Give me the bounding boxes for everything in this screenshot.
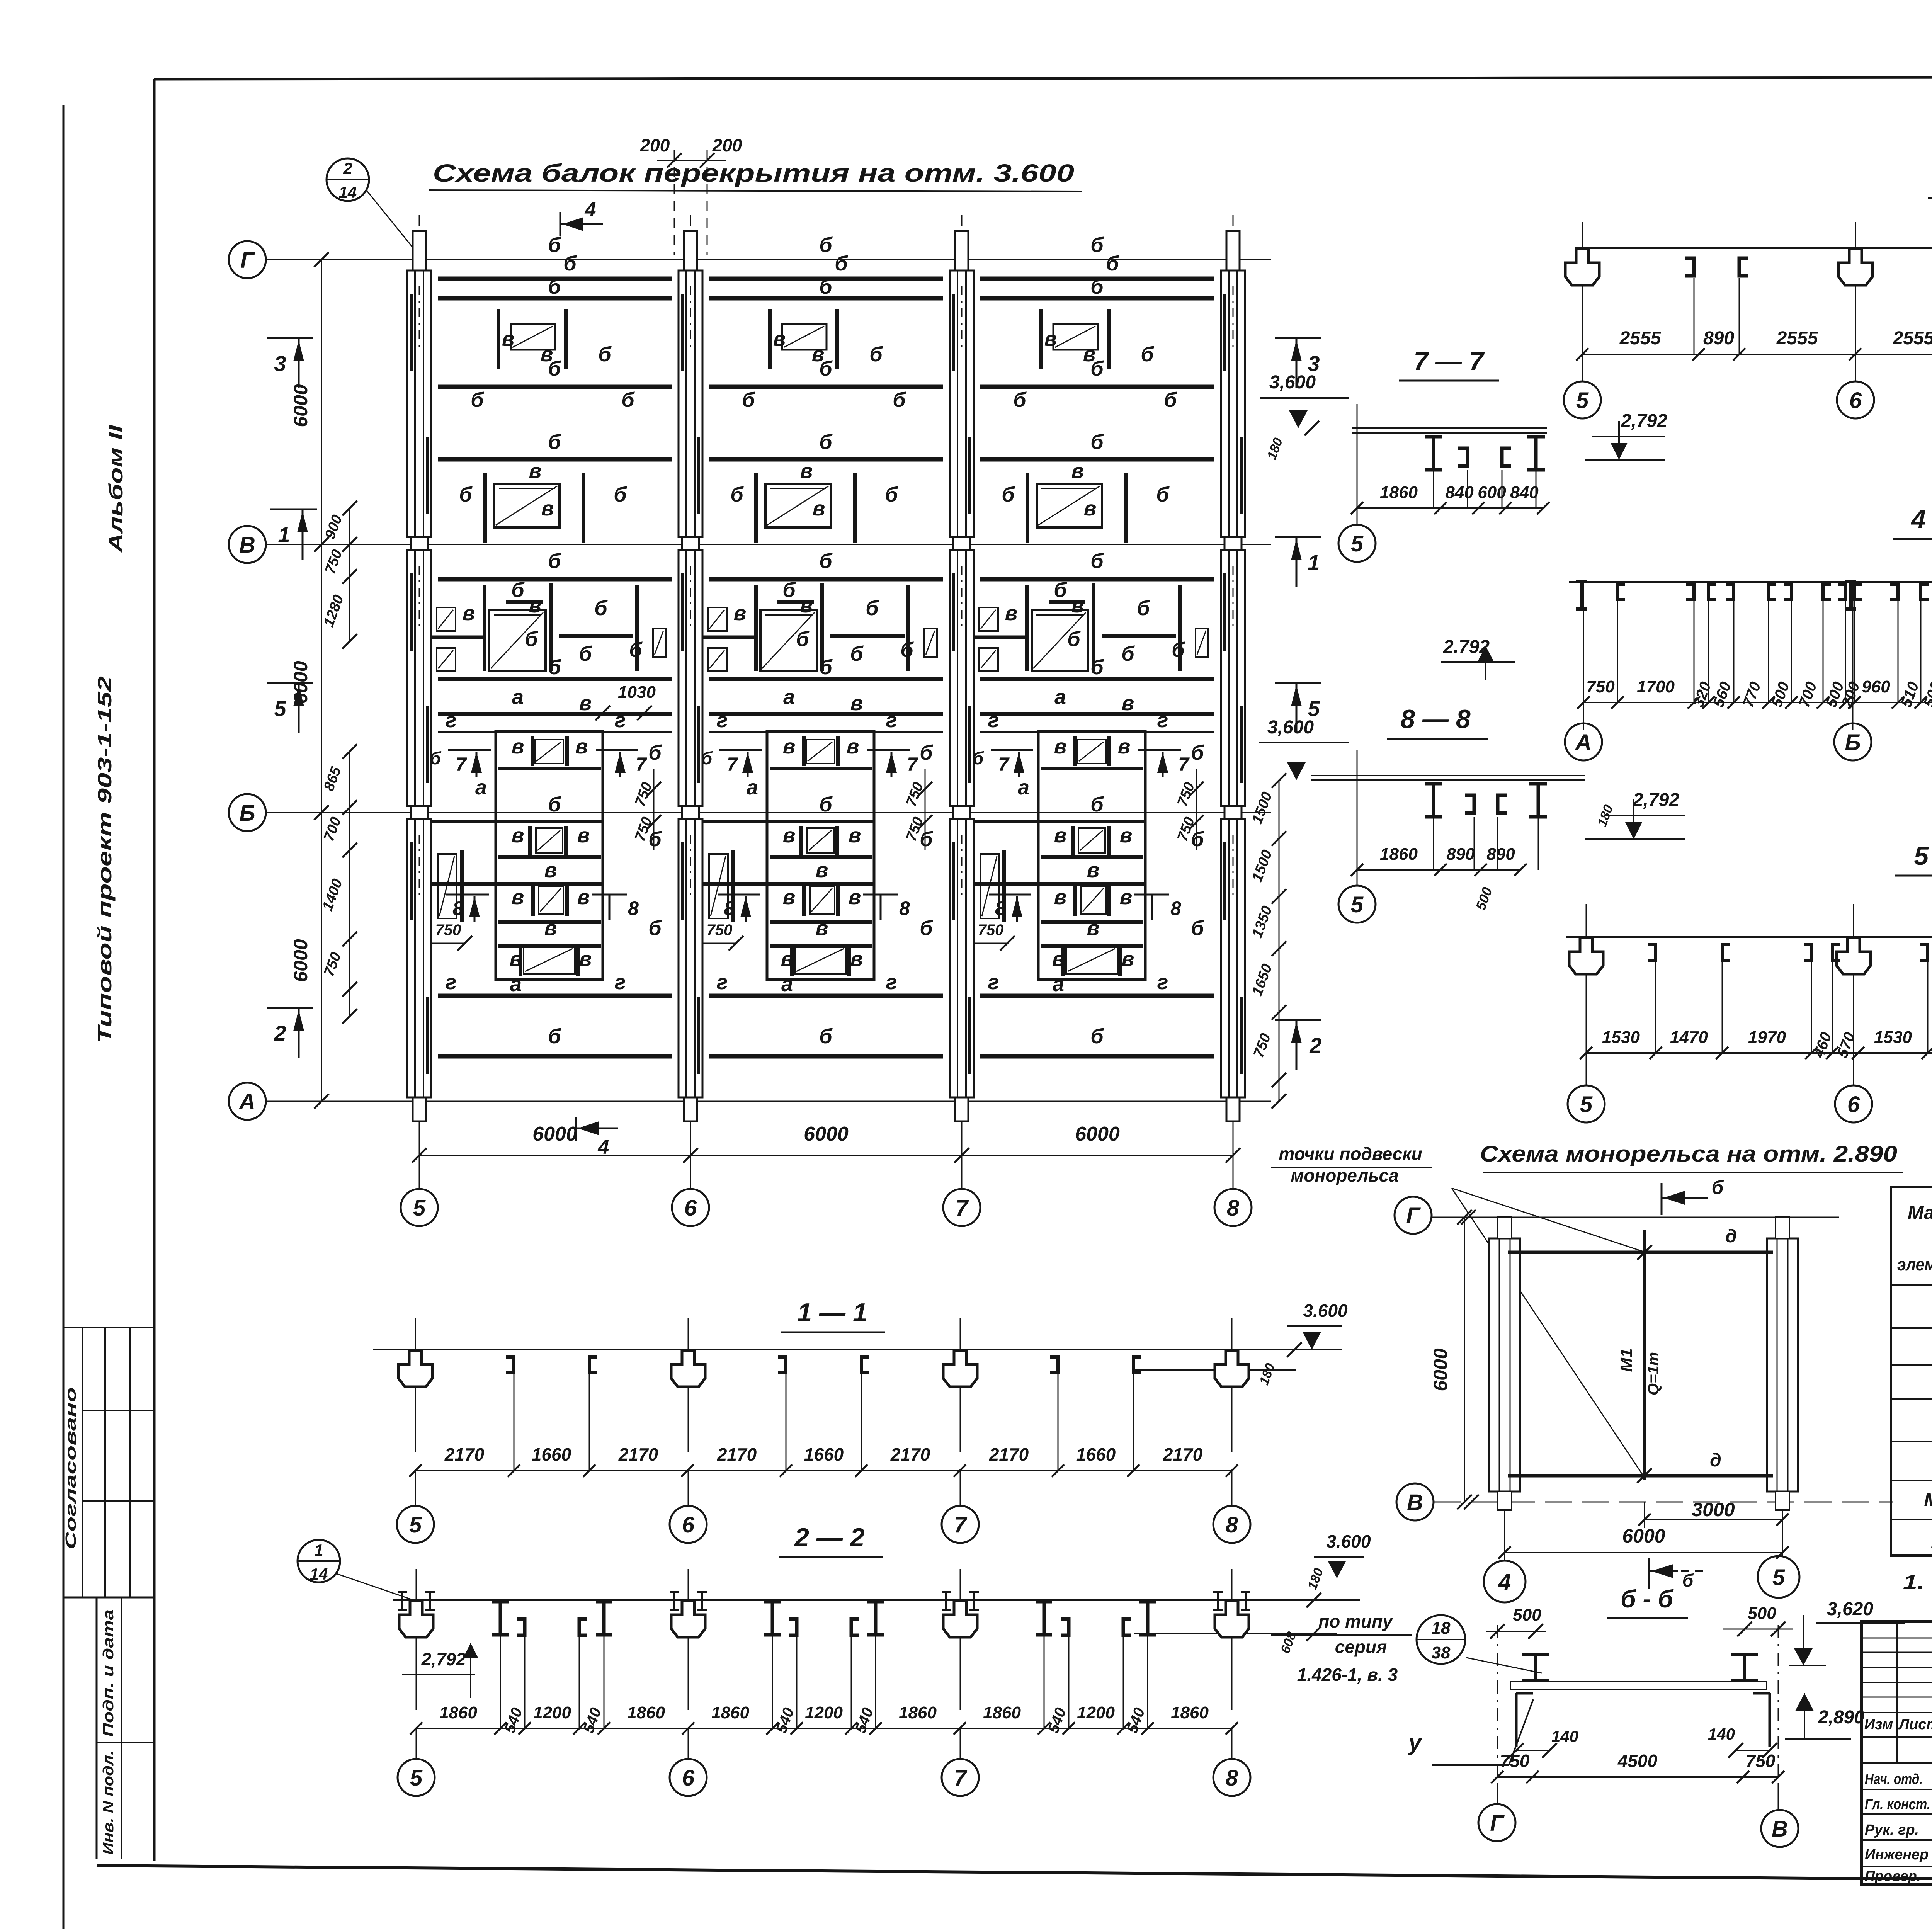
svg-text:1860: 1860 [1171, 1703, 1209, 1722]
svg-text:6000: 6000 [290, 384, 311, 427]
svg-text:14: 14 [339, 183, 357, 201]
svg-text:в: в [850, 692, 863, 715]
svg-text:б: б [1067, 628, 1081, 651]
svg-text:750: 750 [1586, 677, 1615, 696]
svg-text:б: б [920, 828, 933, 851]
svg-text:7: 7 [456, 753, 467, 775]
svg-text:б: б [548, 233, 561, 257]
svg-text:в: в [579, 692, 592, 715]
svg-text:М1: М1 [1924, 1489, 1932, 1510]
svg-text:а: а [1053, 973, 1064, 996]
svg-text:6000: 6000 [1075, 1123, 1120, 1145]
section 3-3 beam line [1575, 247, 1932, 249]
svg-text:б: б [1191, 741, 1204, 764]
svg-text:у: у [1407, 1730, 1422, 1755]
section 8-8 bubble 5 [1357, 870, 1358, 886]
section 8-8 I-beams and brackets [1425, 782, 1442, 786]
svg-text:б: б [819, 656, 833, 679]
drawing frame border [153, 79, 156, 1861]
svg-text:Q=1т: Q=1т [1645, 1352, 1662, 1395]
boiler platform stack [1038, 731, 1145, 980]
marker b top [1661, 1183, 1663, 1215]
svg-text:2: 2 [1309, 1033, 1321, 1058]
svg-text:в: в [544, 859, 557, 882]
svg-text:1660: 1660 [804, 1444, 844, 1464]
section 4-4 bubbles [1565, 723, 1602, 760]
svg-text:1030: 1030 [618, 683, 656, 702]
svg-text:б: б [548, 549, 561, 573]
sheet outer left edge line [63, 105, 65, 1929]
svg-text:840: 840 [1510, 483, 1539, 502]
left vertical dim line 6000s [321, 260, 322, 1101]
section 2-2 dims [416, 1728, 1232, 1729]
svg-text:в: в [847, 735, 859, 758]
svg-text:2170: 2170 [717, 1444, 757, 1464]
svg-text:б: б [742, 388, 755, 412]
svg-text:Типовой проект 903-1-152: Типовой проект 903-1-152 [94, 676, 116, 1043]
svg-text:а: а [783, 685, 795, 709]
marker b near title [1648, 1558, 1650, 1589]
svg-text:б: б [1191, 917, 1204, 940]
svg-text:2,792: 2,792 [1633, 790, 1679, 810]
svg-text:в: в [800, 459, 813, 483]
section 1-1 bubbles [415, 1471, 416, 1506]
svg-text:в: в [502, 327, 515, 350]
svg-text:б: б [1164, 388, 1177, 412]
opening with beams band G-V [768, 309, 772, 369]
svg-text:М1: М1 [1617, 1348, 1636, 1372]
svg-text:1860: 1860 [627, 1703, 665, 1722]
svg-text:б: б [869, 343, 883, 366]
svg-text:8: 8 [452, 898, 463, 919]
svg-text:б: б [1090, 275, 1104, 298]
svg-text:2555: 2555 [1619, 328, 1662, 349]
svg-text:в: в [783, 886, 796, 909]
svg-text:в: в [1044, 327, 1057, 350]
svg-text:1860: 1860 [983, 1703, 1021, 1722]
svg-text:а: а [512, 685, 524, 709]
svg-text:6000: 6000 [1622, 1525, 1665, 1547]
svg-text:точки подвески: точки подвески [1279, 1144, 1422, 1164]
svg-text:в: в [510, 947, 522, 971]
monorail columns [1489, 1238, 1520, 1492]
svg-text:б: б [648, 741, 662, 764]
svg-text:б: б [1090, 430, 1104, 454]
svg-text:1: 1 [314, 1541, 323, 1559]
svg-text:в: в [850, 947, 863, 971]
svg-text:8: 8 [1226, 1512, 1238, 1537]
svg-text:Б: Б [1845, 730, 1861, 755]
svg-text:750: 750 [707, 922, 733, 939]
svg-text:б: б [594, 597, 608, 620]
svg-text:б: б [1090, 793, 1104, 816]
svg-text:Инв. N подл.: Инв. N подл. [100, 1750, 117, 1855]
left dim chain near row V [349, 508, 350, 641]
svg-text:в: в [1083, 343, 1096, 366]
svg-text:Провер.: Провер. [1865, 1868, 1921, 1884]
svg-text:б: б [598, 343, 612, 366]
svg-text:в: в [577, 886, 590, 909]
svg-text:г: г [615, 971, 626, 994]
svg-text:Схема монорельса на отм. 2.89: Схема монорельса на отм. 2.890 [1480, 1141, 1897, 1167]
svg-text:1860: 1860 [1380, 483, 1418, 502]
svg-text:в: в [783, 824, 796, 847]
svg-text:по типу: по типу [1318, 1611, 1393, 1631]
svg-text:г: г [1157, 971, 1168, 994]
svg-text:б: б [796, 628, 810, 651]
svg-text:Схема балок перекрытия на: Схема балок перекрытия на отм. 3.600 [433, 159, 1074, 187]
beams (b) in bay [438, 277, 672, 281]
svg-text:1. Минимальное усилие дл: 1. Минимальное усилие для расчета прикре… [1903, 1571, 1932, 1594]
svg-text:4: 4 [1498, 1570, 1511, 1595]
svg-text:5 — 5: 5 — 5 [1914, 841, 1932, 871]
grid column bubbles [401, 1189, 438, 1226]
section 2-2 hangers [416, 1569, 417, 1710]
svg-text:г: г [886, 971, 897, 994]
svg-text:6: 6 [1847, 1092, 1860, 1117]
svg-text:960: 960 [1862, 677, 1890, 696]
svg-text:500: 500 [1748, 1604, 1776, 1623]
svg-text:2170: 2170 [890, 1444, 930, 1464]
section 7-7 dims [1357, 507, 1543, 509]
svg-text:4: 4 [598, 1136, 609, 1158]
balloon 1/14 [298, 1540, 340, 1582]
svg-text:3: 3 [274, 351, 286, 376]
svg-text:б: б [563, 252, 577, 275]
dims 200 200 at top [674, 150, 675, 255]
svg-text:1: 1 [278, 522, 290, 547]
svg-text:1: 1 [1308, 550, 1320, 575]
monorail bottom rail d [1508, 1474, 1773, 1478]
section 3-3 hangers [1582, 222, 1583, 382]
svg-text:в: в [463, 602, 475, 625]
section 4-4 dims and drops [1583, 702, 1932, 703]
svg-text:1700: 1700 [1637, 677, 1675, 696]
svg-text:б: б [1172, 638, 1185, 662]
svg-text:5: 5 [1576, 388, 1589, 413]
section 3-3 bubbles [1582, 354, 1583, 381]
svg-text:в: в [541, 497, 554, 520]
svg-text:3.600: 3.600 [1303, 1301, 1348, 1321]
svg-text:б: б [511, 578, 525, 602]
svg-text:Нач. отд.: Нач. отд. [1865, 1771, 1923, 1787]
svg-text:2: 2 [343, 159, 352, 177]
svg-text:А: А [1575, 730, 1592, 755]
svg-text:7: 7 [907, 753, 918, 775]
svg-text:3,600: 3,600 [1267, 717, 1314, 738]
section markers 7 and 8 [991, 749, 1033, 751]
monorail dims 3000 6000 [1644, 1502, 1645, 1528]
svg-text:б: б [866, 597, 879, 620]
svg-text:4: 4 [585, 199, 596, 221]
grid row lines [266, 259, 1271, 260]
section marker 2 (left bottom) [267, 1007, 313, 1009]
svg-text:1530: 1530 [1874, 1028, 1912, 1047]
svg-text:В: В [1772, 1816, 1788, 1842]
svg-text:в: в [529, 459, 542, 483]
svg-text:Инженер: Инженер [1865, 1847, 1929, 1863]
svg-text:Гл. конст.: Гл. конст. [1865, 1796, 1930, 1813]
dims 500 [1486, 1631, 1546, 1632]
svg-text:г: г [446, 971, 457, 994]
svg-text:1200: 1200 [1077, 1703, 1115, 1722]
svg-text:б: б [648, 917, 662, 940]
svg-text:38: 38 [1432, 1643, 1451, 1662]
section 7-7 I-beams and brackets [1425, 435, 1442, 439]
svg-text:в: в [579, 947, 592, 971]
svg-text:3000: 3000 [1692, 1499, 1735, 1520]
svg-text:1530: 1530 [1602, 1028, 1640, 1047]
bottom column stems and dim line [419, 1101, 420, 1189]
section marker 3 (right top) [1275, 337, 1321, 339]
svg-text:б: б [1090, 1025, 1104, 1048]
section 4-4 beam line [1569, 581, 1932, 583]
svg-text:7: 7 [954, 1765, 968, 1791]
svg-text:1 — 1: 1 — 1 [797, 1298, 867, 1327]
svg-text:7 — 7: 7 — 7 [1413, 347, 1485, 376]
section 8-8 dims [1357, 869, 1520, 871]
svg-text:1660: 1660 [532, 1444, 571, 1464]
section markers 7 and 8 [719, 749, 762, 751]
svg-text:в: в [1071, 594, 1084, 617]
svg-text:5: 5 [410, 1765, 423, 1791]
svg-text:1200: 1200 [533, 1703, 571, 1722]
svg-text:7: 7 [998, 753, 1010, 775]
svg-text:5: 5 [1351, 531, 1364, 556]
svg-text:в: в [1071, 459, 1084, 483]
svg-text:б: б [782, 578, 796, 602]
svg-text:1660: 1660 [1076, 1444, 1116, 1464]
svg-text:в: в [512, 824, 524, 847]
svg-text:в: в [1118, 735, 1131, 758]
svg-text:г: г [717, 709, 728, 732]
svg-text:140: 140 [1551, 1727, 1578, 1745]
svg-text:750: 750 [1500, 1751, 1530, 1771]
svg-text:б: б [900, 638, 914, 662]
svg-text:в: в [816, 917, 828, 940]
svg-text:2170: 2170 [1163, 1444, 1203, 1464]
I beams on rail [1522, 1653, 1549, 1656]
svg-text:8: 8 [1226, 1765, 1238, 1791]
svg-text:в: в [849, 886, 861, 909]
svg-text:б: б [629, 638, 643, 662]
svg-text:г: г [886, 709, 897, 732]
section 3-3 brackets [1685, 258, 1694, 276]
svg-text:Альбом II: Альбом II [105, 424, 127, 553]
b-b bottom dims [1497, 1776, 1778, 1778]
svg-text:6: 6 [682, 1512, 695, 1537]
svg-text:б: б [1054, 578, 1067, 602]
section 7-7 bubble 5 [1357, 508, 1358, 525]
title block frame [1862, 1622, 1932, 1884]
svg-text:б: б [1141, 343, 1154, 366]
svg-text:2170: 2170 [618, 1444, 658, 1464]
svg-text:в: в [1054, 886, 1067, 909]
svg-text:3,620: 3,620 [1827, 1599, 1873, 1619]
svg-text:б: б [471, 388, 484, 412]
svg-text:б: б [548, 793, 561, 816]
svg-text:7: 7 [956, 1196, 969, 1221]
svg-text:в: в [783, 735, 796, 758]
svg-text:Г: Г [1490, 1811, 1505, 1836]
svg-text:1860: 1860 [1380, 845, 1418, 864]
openings band V-B [708, 607, 727, 631]
svg-text:в: в [773, 327, 786, 350]
svg-text:б: б [920, 917, 933, 940]
svg-text:б: б [1156, 483, 1170, 506]
svg-text:500: 500 [1513, 1605, 1541, 1624]
svg-text:1470: 1470 [1670, 1028, 1708, 1047]
openings band V-B [979, 607, 998, 631]
beams (b) in bay [980, 277, 1214, 281]
balloon 18/38 [1417, 1615, 1465, 1664]
section marker 5 (left) [267, 682, 313, 684]
opening with beams band G-V [497, 309, 500, 369]
svg-text:б: б [819, 549, 833, 573]
section markers 7 and 8 [448, 749, 491, 751]
svg-text:2 — 2: 2 — 2 [794, 1523, 865, 1552]
svg-text:5: 5 [1580, 1092, 1593, 1117]
svg-text:элемента: элемента [1897, 1254, 1932, 1274]
monorail bubbles 4 5 [1484, 1561, 1526, 1602]
column strips (walls) [419, 215, 420, 270]
svg-text:б: б [819, 793, 833, 816]
svg-text:б: б [1682, 1570, 1694, 1590]
section marker 1 (right) [1275, 536, 1321, 538]
svg-text:б: б [621, 388, 635, 412]
svg-text:б: б [819, 233, 833, 257]
rotated dims 750 750 at right [925, 769, 926, 850]
svg-text:8: 8 [899, 898, 910, 919]
monorail grid [1432, 1217, 1839, 1218]
svg-text:б: б [1013, 388, 1027, 412]
svg-text:б: б [548, 1025, 561, 1048]
section 1-1 hangers and brackets [415, 1318, 416, 1452]
svg-text:3.600: 3.600 [1326, 1531, 1371, 1551]
svg-text:2555: 2555 [1893, 328, 1932, 349]
svg-text:г: г [615, 709, 626, 732]
svg-text:д: д [1710, 1450, 1721, 1471]
svg-text:5: 5 [413, 1196, 426, 1221]
svg-text:б: б [850, 642, 864, 665]
window opening left of stack [438, 854, 457, 918]
section 1-1 beam line [373, 1349, 1342, 1350]
svg-text:8: 8 [628, 898, 639, 919]
svg-text:б: б [885, 483, 898, 506]
svg-text:в: в [812, 343, 825, 366]
svg-text:200: 200 [640, 135, 670, 155]
svg-text:в: в [1122, 947, 1134, 971]
rail beam of b-b [1510, 1682, 1767, 1689]
svg-text:в: в [544, 917, 557, 940]
svg-text:б: б [648, 828, 662, 851]
section 7-7 beam [1352, 427, 1547, 429]
svg-text:б: б [1106, 252, 1119, 275]
svg-text:1.426-1, в. 3: 1.426-1, в. 3 [1297, 1665, 1398, 1685]
svg-text:в: в [781, 947, 794, 971]
svg-text:Марка: Марка [1908, 1202, 1932, 1223]
svg-text:200: 200 [712, 135, 742, 155]
section 8-8 beam [1311, 775, 1585, 776]
svg-text:б: б [819, 1025, 833, 1048]
dashed axis lines [1497, 1625, 1498, 1801]
svg-text:в: в [1005, 602, 1018, 625]
svg-text:б: б [614, 483, 627, 506]
svg-text:5: 5 [1351, 892, 1364, 917]
left dim chain near row B [349, 752, 350, 1016]
svg-text:г: г [1157, 709, 1168, 732]
svg-text:б: б [548, 430, 561, 454]
svg-text:В: В [1407, 1490, 1423, 1515]
svg-text:а: а [747, 776, 758, 799]
svg-text:д: д [1725, 1226, 1737, 1247]
svg-text:в: в [1087, 917, 1100, 940]
monorail beam M1 [1643, 1230, 1646, 1480]
section marker 3 (left top) [267, 337, 313, 339]
svg-text:1860: 1860 [711, 1703, 749, 1722]
rotated dims 750 750 at right [1196, 769, 1197, 850]
svg-text:Б: Б [239, 801, 255, 826]
svg-text:монорельса: монорельса [1291, 1165, 1398, 1185]
svg-text:в: в [1054, 735, 1067, 758]
title block left rows [1862, 1638, 1932, 1639]
local dim 750 [419, 943, 465, 944]
monorail top rail d [1508, 1251, 1773, 1254]
svg-text:2,792: 2,792 [421, 1649, 466, 1669]
svg-text:в: в [734, 602, 747, 625]
svg-text:2170: 2170 [989, 1444, 1029, 1464]
svg-text:б: б [893, 388, 906, 412]
section 3-3 dims [1582, 354, 1932, 355]
openings band V-B [437, 607, 456, 631]
svg-text:в: в [1120, 824, 1133, 847]
svg-text:Изм: Изм [1864, 1716, 1893, 1733]
beams (b) in bay [709, 277, 943, 281]
svg-text:890: 890 [1486, 845, 1515, 864]
svg-text:в: в [529, 594, 542, 617]
svg-text:5: 5 [274, 696, 286, 721]
svg-text:6000: 6000 [1430, 1348, 1451, 1391]
svg-text:В: В [239, 532, 255, 558]
section 5-5 beam line [1566, 936, 1932, 938]
svg-text:Подп. и дата: Подп. и дата [100, 1609, 117, 1737]
svg-text:а: а [475, 776, 487, 799]
svg-text:6: 6 [682, 1765, 695, 1791]
svg-text:2555: 2555 [1776, 328, 1818, 349]
svg-text:а: а [1054, 685, 1066, 709]
svg-text:в: в [1087, 859, 1100, 882]
monorail 6000 vertical dim [1464, 1217, 1465, 1502]
svg-text:а: а [1018, 776, 1029, 799]
local dim 750 [690, 943, 736, 944]
svg-text:в: в [512, 735, 524, 758]
svg-text:5: 5 [1772, 1565, 1785, 1590]
svg-text:б: б [1090, 549, 1104, 573]
svg-text:в: в [1122, 692, 1134, 715]
svg-text:8 — 8: 8 — 8 [1400, 704, 1471, 734]
section 5-5 dims [1586, 1052, 1932, 1054]
margin box group (Podp i data / Inv N podl) [96, 1597, 98, 1859]
section marker 4 (bottom) [575, 1117, 577, 1141]
boiler platform stack [767, 731, 874, 980]
svg-text:6: 6 [1849, 388, 1862, 413]
rotated dims 750 750 at right [653, 769, 655, 850]
svg-text:в: в [849, 824, 861, 847]
svg-text:в: в [577, 824, 590, 847]
window opening left of stack [709, 854, 728, 918]
svg-text:б: б [1090, 233, 1104, 257]
svg-text:890: 890 [1446, 845, 1475, 864]
